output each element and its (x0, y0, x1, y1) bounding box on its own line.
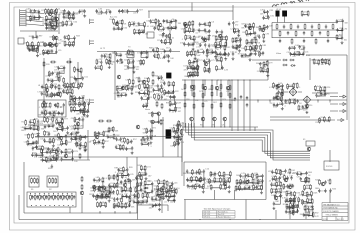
label C91 (222, 125, 225, 127)
junction (68, 205, 69, 206)
label D92 (212, 35, 217, 37)
transistor Q (213, 117, 217, 121)
capacitor C (48, 124, 50, 128)
label R16 (222, 36, 227, 38)
resistor R (106, 58, 108, 64)
resistor R (293, 83, 295, 89)
wire (184, 39, 194, 44)
capacitor C (125, 93, 127, 97)
label C35 (52, 21, 57, 23)
capacitor C (254, 52, 256, 56)
wire (52, 18, 57, 21)
label R77 (64, 119, 69, 121)
capacitor C (147, 136, 149, 140)
wire (48, 51, 52, 53)
label 100 (82, 146, 85, 148)
resistor R (45, 157, 47, 163)
wire (53, 149, 58, 152)
wire (58, 74, 60, 81)
capacitor C (211, 50, 213, 54)
resistor R (34, 194, 36, 200)
resistor R (185, 34, 187, 40)
wire (75, 77, 83, 80)
transistor Q21 (280, 92, 284, 96)
resistor R (138, 77, 140, 83)
label .01 (195, 32, 198, 34)
label 220 (31, 13, 34, 15)
wire (35, 136, 88, 138)
resistor R (94, 131, 96, 137)
junction (220, 126, 221, 127)
wire (46, 27, 52, 30)
svg-text:220: 220 (242, 57, 245, 59)
label L66 (145, 103, 149, 105)
junction (220, 79, 221, 80)
wire (155, 22, 156, 29)
svg-text:220: 220 (69, 87, 72, 89)
label L42 (58, 43, 62, 45)
wire (70, 103, 76, 105)
capacitor C (208, 37, 210, 41)
label 56K (118, 56, 122, 58)
capacitor C20 (75, 78, 77, 82)
label D48 (196, 43, 201, 45)
capacitor C (116, 59, 118, 63)
label .047 (29, 46, 33, 48)
capacitor C (83, 101, 85, 105)
capacitor C (74, 101, 76, 105)
capacitor C (64, 195, 66, 199)
capacitor C (35, 145, 37, 149)
label 100 (59, 76, 62, 78)
resistor R (250, 45, 252, 51)
label .047 (78, 141, 82, 143)
label R2 (163, 83, 166, 85)
resistor R (142, 193, 144, 199)
resistor R (59, 91, 61, 97)
wire (71, 98, 76, 100)
wire (243, 80, 245, 131)
junction (31, 205, 32, 206)
label C98 (222, 47, 227, 49)
wire (49, 125, 53, 127)
label 10K (163, 92, 167, 94)
label D99 (212, 125, 215, 127)
resistor R (33, 125, 35, 131)
resistor R (31, 178, 33, 184)
wire (98, 195, 103, 198)
label C72 (273, 97, 278, 99)
wire (278, 85, 282, 87)
label 56K (246, 57, 250, 59)
capacitor C (146, 50, 148, 54)
transistor Q4 (158, 23, 162, 27)
label D34 (98, 196, 103, 198)
resistor R (220, 92, 222, 98)
resistor R (42, 145, 44, 151)
ground (75, 142, 78, 145)
ground (172, 95, 175, 98)
label 100 (222, 46, 225, 48)
label R77 (238, 54, 243, 56)
resistor R (282, 88, 284, 94)
ground (52, 144, 55, 147)
capacitor C (71, 157, 73, 161)
capacitor C (133, 199, 135, 203)
label .1 (276, 106, 278, 108)
resistor R (140, 59, 142, 65)
resistor R (321, 58, 323, 64)
label C9 (119, 60, 122, 62)
wire (20, 31, 58, 38)
label D85 (262, 45, 267, 47)
label R23 (196, 67, 201, 69)
label D97 (213, 102, 216, 104)
wire (84, 112, 88, 114)
transistor Q (183, 22, 187, 26)
resistor R (169, 101, 171, 107)
wire (250, 48, 255, 50)
capacitor C (64, 35, 66, 39)
label C78 (205, 38, 210, 40)
wire (227, 89, 229, 96)
label R50 (173, 125, 178, 127)
junction (71, 193, 72, 194)
capacitor C (271, 170, 273, 174)
capacitor C (166, 19, 168, 23)
ground (86, 114, 89, 117)
label L90 (112, 53, 116, 55)
label L88 (208, 89, 211, 91)
ground (132, 71, 135, 74)
capacitor C (152, 48, 154, 52)
wire (216, 89, 218, 96)
label .01 (172, 112, 175, 114)
capacitor C (283, 25, 285, 29)
label C43 (80, 104, 85, 106)
resistor R (122, 144, 124, 150)
wire (136, 157, 138, 213)
label D87 (161, 88, 166, 90)
wire stub (329, 100, 331, 103)
capacitor C (203, 59, 205, 63)
resistor R (325, 59, 327, 65)
wire (65, 37, 69, 40)
wire (58, 14, 60, 34)
transistor Q5 (184, 24, 188, 28)
svg-text:470: 470 (168, 185, 171, 187)
resistor R (80, 67, 82, 73)
resistor R (109, 187, 111, 193)
resistor R (328, 59, 330, 65)
label 4.7K (106, 189, 111, 191)
wire (148, 85, 150, 100)
ground (71, 95, 74, 98)
wire (329, 150, 331, 162)
label C83 (124, 66, 129, 68)
label R7 (157, 40, 160, 42)
wire (251, 33, 256, 36)
capacitor C (30, 9, 32, 13)
wire (199, 30, 205, 32)
capacitor C (216, 30, 218, 34)
wire (205, 38, 209, 40)
capacitor C (157, 84, 159, 88)
resistor R (246, 30, 248, 36)
label D22 (181, 134, 186, 136)
label C43 (209, 49, 214, 51)
resistor R (146, 128, 148, 134)
label C30 (58, 121, 63, 123)
svg-text:.047: .047 (129, 63, 133, 65)
label 33K (90, 191, 94, 193)
label D21 (66, 15, 71, 17)
capacitor C (105, 10, 107, 14)
resistor R (121, 19, 123, 25)
label L89 (252, 39, 256, 41)
label S2 (49, 189, 52, 191)
label R61 (134, 86, 139, 88)
wire (72, 134, 77, 140)
capacitor C (197, 49, 199, 53)
resistor R (154, 93, 156, 99)
label R20 (309, 105, 314, 107)
capacitor C (223, 52, 225, 56)
label C84 (24, 134, 29, 136)
svg-text:.1: .1 (226, 56, 228, 58)
capacitor C (54, 103, 56, 107)
ground (108, 199, 111, 202)
wire (139, 93, 144, 95)
wire (144, 93, 148, 96)
resistor R (209, 21, 211, 27)
resistor R (54, 25, 56, 31)
label R4 (118, 145, 121, 147)
label C64 (74, 69, 79, 71)
label C88 (207, 23, 212, 25)
resistor R (260, 44, 262, 50)
wire (247, 26, 254, 33)
resistor R (194, 50, 196, 56)
label D51 (76, 135, 81, 137)
junction (191, 79, 192, 80)
wire (65, 44, 70, 46)
capacitor C (276, 103, 278, 107)
svg-text:.01: .01 (146, 26, 149, 28)
label C53 (217, 90, 220, 92)
label D23 (124, 60, 129, 62)
capacitor C (126, 168, 128, 172)
svg-text:.047: .047 (164, 99, 168, 101)
wire (165, 92, 169, 95)
resistor R (84, 102, 86, 108)
label L2 (71, 126, 74, 128)
ground (72, 17, 75, 20)
resistor R (81, 82, 83, 88)
resistor R (62, 21, 64, 27)
label D6 (101, 186, 104, 188)
label 470 (235, 25, 238, 27)
resistor R (140, 165, 142, 171)
capacitor C (98, 178, 100, 182)
resistor R (49, 138, 51, 144)
ground (127, 178, 130, 181)
wire (204, 89, 206, 96)
capacitor C (104, 54, 106, 58)
label R6 (327, 93, 330, 95)
transistor Q (54, 36, 58, 40)
label .1 (226, 56, 228, 58)
resistor R (139, 172, 141, 178)
wire feedback bundle 2 (186, 123, 310, 158)
capacitor C (143, 91, 145, 95)
box switch A (29, 176, 39, 187)
wire (150, 131, 152, 139)
wire (202, 38, 205, 40)
svg-text:Was 4.7 Was 10.0: Was 4.7 Was 10.0 (218, 217, 231, 219)
label C67 (291, 47, 296, 49)
label C60 (49, 36, 54, 38)
label R76 (41, 10, 46, 12)
wire (71, 109, 74, 111)
resistor R (204, 67, 206, 73)
resistor R (157, 53, 159, 59)
wire (30, 18, 34, 19)
wire (189, 44, 193, 46)
wire (62, 128, 67, 131)
wire (245, 25, 250, 28)
label .1 (280, 88, 282, 90)
label D58 (163, 20, 168, 22)
resistor R (100, 201, 102, 207)
label L74 (276, 170, 280, 172)
wire (42, 88, 59, 94)
label 33K (178, 23, 182, 25)
label L57 (117, 54, 121, 56)
wire (128, 83, 133, 88)
label C11 (291, 99, 295, 101)
resistor R (61, 140, 63, 146)
capacitor C (84, 135, 86, 139)
capacitor C (319, 31, 321, 35)
capacitor C (169, 48, 171, 52)
label L90 (111, 129, 115, 131)
capacitor C (306, 106, 308, 110)
label D20 (80, 101, 85, 103)
label R88 (165, 35, 170, 37)
capacitor C (41, 153, 43, 157)
label 100 (74, 161, 77, 163)
capacitor C (118, 9, 120, 13)
label L46 (40, 138, 44, 140)
svg-text:100: 100 (136, 69, 139, 71)
wire (191, 53, 195, 55)
svg-text:.047: .047 (78, 141, 82, 143)
wire (69, 207, 71, 213)
capacitor C (37, 119, 39, 123)
capacitor C (58, 111, 60, 115)
label C48 (191, 29, 196, 31)
resistor R (146, 193, 148, 199)
label 100 (71, 15, 74, 17)
capacitor C (79, 108, 81, 112)
label .1 (55, 159, 57, 161)
capacitor C (101, 193, 103, 197)
label D42 (45, 50, 50, 52)
resistor R (215, 41, 217, 47)
transistor Q20 (226, 86, 230, 90)
wire (70, 13, 74, 15)
label 2.2K (66, 13, 71, 15)
capacitor C (278, 90, 280, 94)
wire (337, 22, 342, 31)
ground (194, 57, 197, 60)
resistor R (64, 41, 66, 47)
resistor R (78, 101, 80, 107)
label 1K (308, 175, 311, 177)
label 100 (57, 145, 60, 147)
label 220 (315, 122, 318, 124)
resistor R (41, 148, 43, 154)
capacitor C (251, 46, 253, 50)
svg-text:B 1234: B 1234 (323, 219, 328, 221)
transformer T2 box (127, 52, 134, 58)
svg-text:220: 220 (170, 131, 173, 133)
svg-text:470: 470 (199, 174, 202, 176)
svg-text:220: 220 (117, 97, 120, 99)
svg-text:.1: .1 (182, 39, 184, 41)
wire (272, 171, 276, 173)
svg-text:.1: .1 (114, 172, 116, 174)
resistor R (164, 89, 166, 95)
ground (214, 55, 217, 58)
wire (170, 103, 175, 106)
resistor R (51, 16, 53, 22)
capacitor C (79, 110, 81, 114)
capacitor C (67, 126, 69, 130)
wire (191, 68, 195, 69)
capacitor C (32, 35, 34, 39)
junction (229, 99, 230, 100)
resistor R (249, 23, 251, 29)
wire (212, 51, 215, 53)
resistor R (202, 84, 204, 90)
resistor R (262, 67, 264, 73)
label R24 (28, 46, 33, 48)
svg-text:.047: .047 (177, 111, 181, 113)
wire (185, 23, 189, 26)
capacitor C (98, 140, 100, 144)
wire (346, 100, 348, 120)
resistor R (48, 194, 50, 200)
resistor R (103, 131, 105, 137)
wire (277, 98, 281, 100)
label 220 (133, 13, 136, 15)
resistor R (216, 65, 218, 71)
label 100 (26, 20, 29, 22)
label .1 (122, 141, 124, 143)
label 470 (40, 121, 43, 123)
svg-text:100: 100 (46, 107, 49, 109)
svg-text:100: 100 (159, 31, 162, 33)
wire (168, 28, 172, 30)
wire (237, 47, 240, 49)
wire (225, 53, 229, 56)
transistor Q31 (80, 191, 84, 195)
wire (321, 89, 325, 91)
label 56K (145, 33, 149, 35)
wire stage column (220, 80, 222, 127)
